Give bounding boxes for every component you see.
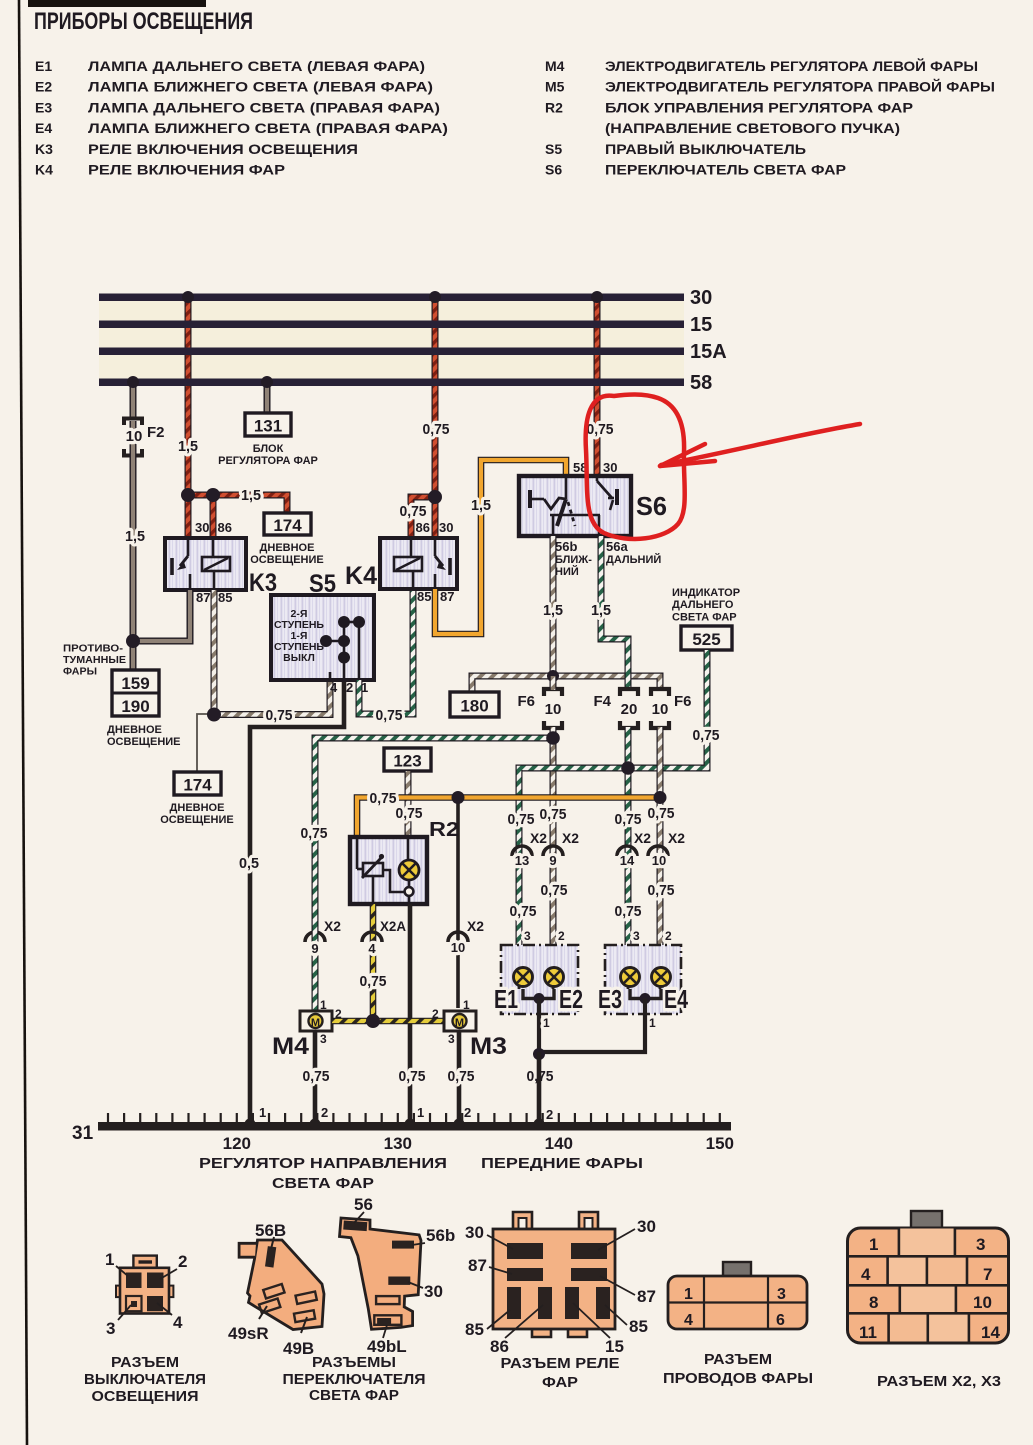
svg-text:159: 159 (121, 674, 149, 693)
svg-text:30: 30 (439, 520, 453, 535)
svg-text:E4: E4 (35, 120, 52, 136)
junction dot K3-85/S5 (207, 708, 221, 722)
wire S5 pin2 black down-left, 0.5 to bus 31 (250, 680, 344, 1124)
svg-text:56a: 56a (606, 539, 628, 554)
svg-text:РЕЛЕ ВКЛЮЧЕНИЯ ОСВЕЩЕНИЯ: РЕЛЕ ВКЛЮЧЕНИЯ ОСВЕЩЕНИЯ (88, 141, 358, 157)
svg-text:1: 1 (417, 1105, 424, 1120)
junction dot orange/M3 (452, 791, 465, 804)
svg-text:180: 180 (460, 697, 488, 716)
svg-text:ИНДИКАТОР: ИНДИКАТОР (672, 587, 740, 599)
wire below fuse F2 down to fog-lamp junction (130, 421, 137, 641)
wire K3: horizontal red to box 174 (188, 495, 287, 513)
red annotation arrow (661, 424, 860, 465)
wire X2:10 to E4 pin 2 (657, 940, 664, 968)
svg-text:1: 1 (105, 1250, 114, 1269)
svg-text:R2: R2 (545, 99, 563, 115)
connector: X2 X3 plug (911, 1211, 942, 1228)
X2A connector arc (pin 4, R2) (362, 932, 382, 942)
yellow wire M4 pin2 to M3 pin2 (332, 1018, 444, 1025)
K4 internals: coil + contact (mirror of K3) (394, 540, 450, 587)
svg-text:87: 87 (440, 589, 454, 604)
svg-text:ЛАМПА БЛИЖНЕГО СВЕТА (ЛЕВАЯ ФА: ЛАМПА БЛИЖНЕГО СВЕТА (ЛЕВАЯ ФАРА) (88, 79, 433, 95)
svg-text:ВЫКЛ: ВЫКЛ (283, 652, 315, 664)
svg-text:ДНЕВНОЕ: ДНЕВНОЕ (107, 724, 162, 736)
svg-text:2: 2 (558, 929, 565, 943)
connector 1 pin hole 4 (147, 1296, 163, 1311)
connector 2b slot 56 (343, 1221, 367, 1232)
svg-text:0,75: 0,75 (423, 421, 450, 438)
fuse F6 right (651, 689, 669, 728)
legend left column (35, 58, 448, 178)
svg-text:0,75: 0,75 (266, 707, 293, 724)
svg-text:86: 86 (490, 1337, 509, 1356)
wire dot to K4 pin30 (432, 497, 439, 538)
svg-text:E1: E1 (494, 984, 518, 1014)
svg-text:174: 174 (273, 516, 302, 535)
svg-text:13: 13 (515, 853, 529, 868)
svg-text:8: 8 (869, 1293, 878, 1312)
svg-text:0,75: 0,75 (615, 811, 642, 828)
svg-text:ОСВЕЩЕНИЕ: ОСВЕЩЕНИЕ (160, 814, 234, 826)
connector 2a contact slots (263, 1284, 284, 1299)
junction dot X2A/M wires (366, 1014, 380, 1028)
svg-text:ПРОВОДОВ ФАРЫ: ПРОВОДОВ ФАРЫ (663, 1371, 813, 1387)
S6 pin 56b stub (550, 536, 557, 557)
svg-text:1,5: 1,5 (471, 497, 491, 514)
wire K4 coil branch: red corner from dot to pin 86 (411, 497, 435, 538)
wire S6 56a green down, jog right, to F4 (601, 536, 628, 688)
svg-text:0,5: 0,5 (239, 855, 259, 872)
svg-text:ПРОТИВО-: ПРОТИВО- (63, 643, 124, 655)
svg-text:10: 10 (126, 428, 143, 445)
svg-text:СВЕТА ФАР: СВЕТА ФАР (309, 1388, 399, 1404)
svg-text:190: 190 (121, 697, 149, 716)
junction dot bus31/M4 wire (310, 1119, 321, 1130)
connector: headlamp switch plug B (56 56b 30 49bL) (340, 1218, 422, 1329)
svg-text:ЛАМПА ДАЛЬНЕГО СВЕТА (ЛЕВАЯ ФА: ЛАМПА ДАЛЬНЕГО СВЕТА (ЛЕВАЯ ФАРА) (88, 58, 425, 74)
svg-text:0,75: 0,75 (648, 882, 675, 899)
motor M3 box (444, 1011, 476, 1031)
connector: headlamp relay socket (разъем реле фар) (513, 1212, 532, 1229)
svg-text:РЕЛЕ ВКЛЮЧЕНИЯ ФАР: РЕЛЕ ВКЛЮЧЕНИЯ ФАР (88, 162, 285, 178)
svg-text:0,75: 0,75 (540, 806, 567, 823)
svg-text:86: 86 (218, 520, 232, 535)
svg-text:2: 2 (665, 929, 672, 943)
svg-text:ПРАВЫЙ ВЫКЛЮЧАТЕЛЬ: ПРАВЫЙ ВЫКЛЮЧАТЕЛЬ (605, 140, 806, 157)
svg-text:1,5: 1,5 (125, 528, 145, 545)
relay K4 box (380, 538, 457, 589)
wire K3 pin87 down-left to fog junction (133, 590, 190, 641)
svg-text:14: 14 (620, 853, 635, 868)
connector: light switch (разъем выключателя освещения) (116, 1256, 173, 1314)
svg-text:4: 4 (684, 1312, 693, 1329)
svg-text:4: 4 (330, 680, 338, 695)
svg-text:F2: F2 (147, 424, 165, 441)
svg-text:49bL: 49bL (367, 1337, 407, 1356)
svg-text:1,5: 1,5 (591, 602, 611, 619)
X2 arc pin 10 (E4) (648, 846, 668, 856)
svg-text:2: 2 (346, 680, 353, 695)
svg-text:2: 2 (321, 1105, 328, 1120)
svg-text:(НАПРАВЛЕНИЕ СВЕТОВОГО ПУЧКА): (НАПРАВЛЕНИЕ СВЕТОВОГО ПУЧКА) (605, 120, 900, 136)
svg-text:0,75: 0,75 (396, 805, 423, 822)
svg-text:30: 30 (690, 287, 712, 309)
relay socket slots row 87 (507, 1268, 543, 1281)
connector: headlamp wires plug (разъем проводов фары) (723, 1262, 751, 1278)
wire R2 left pin yellow to X2A (370, 904, 377, 1021)
svg-text:87: 87 (468, 1256, 487, 1275)
wire M3 pin3 to bus 31 (457, 1031, 462, 1124)
svg-text:6: 6 (776, 1312, 785, 1329)
bus 30 (99, 294, 684, 302)
connector: headlamp switch plug A (56B 49sR 49B) (248, 1240, 325, 1330)
svg-text:1: 1 (684, 1286, 693, 1303)
svg-text:9: 9 (311, 941, 318, 956)
lamp E2 (545, 968, 564, 990)
wire R2 centre pin black down to bus 31 (408, 904, 413, 1124)
svg-text:X2: X2 (530, 830, 547, 846)
junction dot K3 branch 2 (206, 488, 220, 502)
svg-text:15: 15 (690, 314, 712, 336)
svg-text:2: 2 (432, 1007, 439, 1021)
relay socket slots row 30 (507, 1243, 543, 1259)
svg-text:M5: M5 (545, 79, 565, 95)
svg-text:3: 3 (976, 1235, 985, 1254)
box 525 (681, 626, 732, 650)
wire W2 red from bus 30 to K4 (432, 297, 439, 497)
svg-text:130: 130 (384, 1134, 412, 1153)
svg-text:K3: K3 (249, 569, 277, 597)
svg-text:X2: X2 (668, 830, 685, 846)
orange wire K4 pin87 loop to S6 pin58 (435, 460, 566, 634)
svg-text:20: 20 (621, 701, 638, 718)
svg-text:3: 3 (633, 929, 640, 943)
svg-text:10: 10 (652, 701, 669, 718)
svg-text:X2: X2 (467, 918, 484, 934)
svg-text:0,75: 0,75 (693, 727, 720, 744)
svg-text:0,75: 0,75 (448, 1068, 475, 1085)
lamp E4 (652, 968, 671, 990)
svg-text:85: 85 (417, 589, 431, 604)
junction dot orange/F6-right (654, 791, 667, 804)
headlamp box E1/E2 (dash-dot) (501, 945, 578, 1014)
junction dot fog (126, 634, 140, 648)
svg-text:ЭЛЕКТРОДВИГАТЕЛЬ РЕГУЛЯТОРА ЛЕ: ЭЛЕКТРОДВИГАТЕЛЬ РЕГУЛЯТОРА ЛЕВОЙ ФАРЫ (605, 57, 978, 74)
lamp E3 (621, 968, 640, 990)
wire from dot to K3 pin30 (185, 495, 192, 538)
S5 contact diagram (321, 617, 363, 678)
wire W1 red from bus 30 to K3 area (185, 297, 192, 495)
wire X2:9 to E2 pin 2 (550, 940, 557, 968)
svg-text:10: 10 (451, 940, 465, 955)
svg-text:0,75: 0,75 (510, 903, 537, 920)
wire from 56b net to fuse F6 right (553, 676, 660, 690)
svg-text:РАЗЪЕМ: РАЗЪЕМ (704, 1352, 772, 1368)
svg-text:M4: M4 (545, 58, 565, 74)
svg-text:S5: S5 (545, 141, 562, 157)
wire S6 56b down to junction (550, 536, 557, 676)
connector 1 pin hole 3 (126, 1296, 142, 1311)
svg-text:1: 1 (543, 1016, 550, 1030)
wire F6 right bottom down through orange dot to X2:10 / E4 (657, 727, 664, 960)
svg-text:10: 10 (973, 1293, 992, 1312)
svg-text:ОСВЕЩЕНИЯ: ОСВЕЩЕНИЯ (92, 1389, 199, 1405)
svg-text:1: 1 (463, 998, 470, 1012)
wire S5 pin1 green to K4 pin85 (359, 590, 413, 714)
svg-text:49B: 49B (283, 1339, 314, 1358)
svg-text:РАЗЪЕМЫ: РАЗЪЕМЫ (312, 1355, 396, 1371)
svg-text:49sR: 49sR (228, 1324, 269, 1343)
relay socket slots row 85/86/15 (507, 1287, 521, 1319)
svg-text:10: 10 (652, 853, 666, 868)
svg-text:4: 4 (861, 1265, 871, 1284)
svg-text:1,5: 1,5 (543, 602, 563, 619)
svg-text:10: 10 (545, 701, 562, 718)
thin wire from junction to box 174 lower (197, 714, 214, 772)
svg-text:БЛОК: БЛОК (253, 443, 284, 455)
box 131 (245, 413, 291, 436)
svg-text:525: 525 (692, 630, 720, 649)
svg-text:30: 30 (637, 1217, 656, 1236)
R2 box (350, 837, 427, 904)
svg-text:РЕГУЛЯТОР НАПРАВЛЕНИЯ: РЕГУЛЯТОР НАПРАВЛЕНИЯ (199, 1156, 447, 1172)
box 123 (384, 748, 431, 771)
svg-text:0,75: 0,75 (303, 1068, 330, 1085)
svg-text:0,75: 0,75 (541, 882, 568, 899)
svg-text:ЭЛЕКТРОДВИГАТЕЛЬ РЕГУЛЯТОРА ПР: ЭЛЕКТРОДВИГАТЕЛЬ РЕГУЛЯТОРА ПРАВОЙ ФАРЫ (605, 78, 995, 95)
svg-text:87: 87 (637, 1287, 656, 1306)
svg-text:ПЕРЕКЛЮЧАТЕЛЬ СВЕТА ФАР: ПЕРЕКЛЮЧАТЕЛЬ СВЕТА ФАР (605, 162, 846, 178)
svg-text:2: 2 (546, 1107, 553, 1122)
svg-text:ДАЛЬНИЙ: ДАЛЬНИЙ (606, 553, 661, 566)
svg-text:150: 150 (706, 1134, 734, 1153)
svg-text:ПЕРЕДНИЕ ФАРЫ: ПЕРЕДНИЕ ФАРЫ (481, 1156, 643, 1172)
headlamp box E3/E4 (dash-dot) (605, 945, 681, 1014)
bus 31 bar (98, 1122, 731, 1131)
junction dot bus58/131 (261, 376, 273, 388)
svg-text:30: 30 (465, 1223, 484, 1242)
E1/E2 common wire to pin 1 (523, 989, 554, 999)
motor M4 box (300, 1011, 332, 1031)
svg-text:ОСВЕЩЕНИЕ: ОСВЕЩЕНИЕ (250, 554, 324, 566)
svg-text:БЛИЖ-: БЛИЖ- (555, 554, 592, 566)
svg-text:14: 14 (981, 1323, 1000, 1342)
svg-text:123: 123 (393, 752, 421, 771)
top black bar (28, 0, 206, 7)
connector 1 top slot (139, 1260, 153, 1263)
E3/E4 common wire to pin 1 (630, 989, 661, 999)
svg-text:E2: E2 (559, 984, 583, 1014)
svg-text:ЛАМПА БЛИЖНЕГО СВЕТА (ПРАВАЯ Ф: ЛАМПА БЛИЖНЕГО СВЕТА (ПРАВАЯ ФАРА) (88, 120, 448, 136)
svg-text:3: 3 (448, 1032, 455, 1046)
svg-text:0,75: 0,75 (400, 503, 427, 520)
svg-text:F4: F4 (593, 693, 611, 710)
orange wire low-beam to R2 (357, 798, 660, 838)
svg-text:85: 85 (218, 590, 232, 605)
X2 arc pin 14 (E3) (617, 846, 637, 856)
wire X2:9 to M4 pin1 (green over arc) (312, 930, 319, 1011)
svg-text:2: 2 (178, 1252, 187, 1271)
bus 31 tick marks (108, 1113, 720, 1123)
box 180 (450, 692, 499, 717)
svg-text:9: 9 (549, 853, 556, 868)
svg-text:120: 120 (223, 1134, 251, 1153)
svg-text:56b: 56b (555, 539, 577, 554)
svg-text:M3: M3 (470, 1033, 507, 1060)
svg-text:0,75: 0,75 (376, 707, 403, 724)
svg-text:131: 131 (254, 417, 282, 436)
wire fog junction down to box 159/190 (130, 641, 137, 670)
junction dot bus58/F2 (127, 376, 139, 388)
svg-text:3: 3 (524, 929, 531, 943)
wire K3 pin85 down to junction (211, 590, 218, 714)
lamp E1 (514, 968, 533, 990)
svg-text:РАЗЪЕМ РЕЛЕ: РАЗЪЕМ РЕЛЕ (501, 1356, 620, 1372)
svg-text:31: 31 (72, 1123, 94, 1144)
svg-text:ЛАМПА ДАЛЬНЕГО СВЕТА (ПРАВАЯ Ф: ЛАМПА ДАЛЬНЕГО СВЕТА (ПРАВАЯ ФАРА) (88, 99, 440, 115)
X2 connector arc (pin 9, M4) (305, 932, 325, 942)
X2 arc pin 9 (E2) (543, 846, 563, 856)
connector 2a slot 56B (265, 1246, 276, 1267)
svg-text:3: 3 (777, 1286, 786, 1303)
svg-text:E2: E2 (35, 79, 52, 95)
svg-text:ДАЛЬНЕГО: ДАЛЬНЕГО (672, 599, 734, 611)
wire junction to S5 pin4 (214, 680, 330, 715)
fuse F4 (620, 689, 638, 728)
wire X2:13 to E1 pin 3 (516, 940, 523, 968)
svg-text:ТУМАННЫЕ: ТУМАННЫЕ (63, 654, 126, 666)
wire F4 bottom through junction down to X2:14 / E3 (625, 727, 632, 960)
svg-text:M4: M4 (272, 1033, 310, 1060)
wire high-beam left branch down to X2:13 / E1 (516, 770, 523, 960)
svg-text:РАЗЪЕМ X2, X3: РАЗЪЕМ X2, X3 (877, 1373, 1001, 1390)
svg-text:0,75: 0,75 (615, 903, 642, 920)
svg-text:174: 174 (183, 776, 212, 795)
switch S5 box (271, 595, 374, 680)
svg-text:ОСВЕЩЕНИЕ: ОСВЕЩЕНИЕ (107, 736, 181, 748)
svg-text:58: 58 (690, 372, 712, 394)
svg-text:7: 7 (983, 1265, 992, 1284)
junction dot K3 branch 1 (181, 488, 195, 502)
svg-text:S6: S6 (636, 491, 667, 521)
wire horizontal from 56b junction to box 180 (472, 676, 553, 692)
box 159/190 (112, 670, 159, 716)
X2 X3 plug pin numbers (859, 1235, 1000, 1342)
svg-text:X2: X2 (324, 918, 341, 934)
switch S6 box (519, 476, 631, 536)
junction dot bus30/W2 (429, 291, 441, 303)
legend right column (545, 57, 995, 178)
junction dot bus30/W3 (591, 291, 603, 303)
svg-text:4: 4 (368, 941, 376, 956)
R2 internals: potentiometer + lamp (357, 839, 419, 904)
svg-text:56B: 56B (255, 1221, 286, 1240)
X2 connector arc (pin 10, M3) (448, 932, 468, 942)
S6 internals (530, 478, 617, 536)
wire black from orange junction down to M3 pin1 (456, 798, 460, 1009)
junction dot bus31/M3 wire (454, 1119, 465, 1130)
wire W3 red from bus 30 to S6 pin 30 (594, 297, 601, 476)
svg-text:СВЕТА ФАР: СВЕТА ФАР (272, 1176, 374, 1192)
relay K3 box (165, 538, 246, 590)
svg-text:0,75: 0,75 (370, 790, 397, 807)
svg-text:СВЕТА ФАР: СВЕТА ФАР (672, 612, 737, 624)
svg-text:S5: S5 (309, 570, 336, 598)
svg-text:140: 140 (545, 1134, 573, 1153)
fuse F6 left (544, 689, 562, 728)
svg-text:БЛОК УПРАВЛЕНИЯ РЕГУЛЯТОРА ФАР: БЛОК УПРАВЛЕНИЯ РЕГУЛЯТОРА ФАР (605, 99, 913, 115)
box 174 upper (дневное освещение) (264, 513, 311, 535)
svg-text:0,75: 0,75 (360, 973, 387, 990)
K3 internals: contact + coil (172, 540, 230, 588)
svg-text:30: 30 (195, 520, 209, 535)
svg-text:F6: F6 (517, 693, 535, 710)
svg-text:ФАРЫ: ФАРЫ (63, 666, 97, 678)
svg-text:0,75: 0,75 (399, 1068, 426, 1085)
bus 58 (99, 379, 684, 387)
wire from dot2 to K3 pin86 (210, 495, 217, 538)
svg-text:87: 87 (196, 590, 210, 605)
svg-text:15A: 15A (690, 341, 727, 363)
svg-text:F6: F6 (674, 693, 692, 710)
wire F6 left bottom to junction, then down to E2 (550, 727, 557, 960)
svg-text:X2: X2 (562, 830, 579, 846)
connector 1 pin hole 2 (147, 1273, 164, 1289)
svg-text:3: 3 (106, 1319, 115, 1338)
svg-text:3: 3 (320, 1032, 327, 1046)
wire X2:14 to E3 pin 3 (625, 940, 632, 968)
svg-text:ПЕРЕКЛЮЧАТЕЛЯ: ПЕРЕКЛЮЧАТЕЛЯ (283, 1372, 426, 1388)
bus 15 (99, 321, 684, 329)
junction dot bus30/W1 (182, 291, 194, 303)
svg-text:1: 1 (649, 1016, 656, 1030)
svg-text:K4: K4 (35, 162, 53, 178)
svg-text:ПРИБОРЫ ОСВЕЩЕНИЯ: ПРИБОРЫ ОСВЕЩЕНИЯ (34, 8, 253, 35)
junction dot bus31/S5 wire (245, 1119, 256, 1130)
svg-text:86: 86 (416, 520, 430, 535)
svg-text:M: M (311, 1017, 320, 1029)
svg-text:30: 30 (424, 1282, 443, 1301)
X2 arc pin 13 (E1) (512, 846, 532, 856)
bus 15A (99, 348, 684, 356)
svg-text:1: 1 (320, 998, 327, 1012)
red annotation circle around S6 (586, 394, 685, 539)
svg-text:РАЗЪЕМ: РАЗЪЕМ (111, 1355, 179, 1371)
svg-text:E1: E1 (35, 58, 52, 74)
svg-text:1: 1 (259, 1105, 266, 1120)
wire from bus 58 to fuse F2 (130, 382, 137, 418)
connector 1 pin hole 1 (126, 1273, 142, 1289)
svg-text:11: 11 (859, 1323, 877, 1342)
junction dot 56b/180 (547, 670, 559, 682)
wire high-beam horizontal y768 from corner x519 to 525 riser (519, 768, 628, 772)
wire 525 down to high-beam net (628, 650, 707, 768)
svg-text:15: 15 (605, 1337, 624, 1356)
wire box123 down to R2 (405, 771, 412, 837)
junction dot bus31/lamp wire (534, 1119, 545, 1130)
svg-text:X2A: X2A (380, 918, 406, 934)
svg-text:M: M (455, 1017, 464, 1029)
svg-text:1,5: 1,5 (178, 438, 198, 455)
junction dot bus31/R2 wire (405, 1119, 416, 1130)
wire M4 pin3 to bus 31 (313, 1031, 318, 1124)
svg-text:0,75: 0,75 (648, 805, 675, 822)
svg-text:K4: K4 (345, 562, 377, 590)
svg-text:ДНЕВНОЕ: ДНЕВНОЕ (260, 542, 315, 554)
wire low-beam horizontal from F6-left junction to left corner, down to X2:9 (315, 738, 553, 945)
page left border line (19, 0, 27, 1445)
svg-text:НИЙ: НИЙ (555, 565, 579, 578)
